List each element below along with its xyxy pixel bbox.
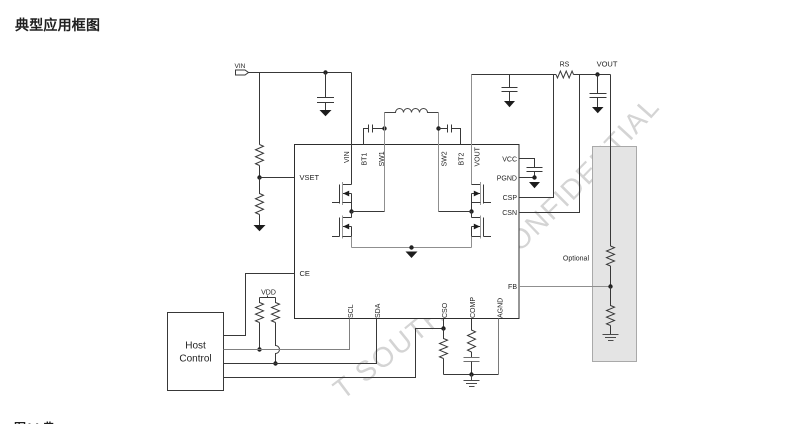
ground (COMP, signal) [464,375,480,387]
capacitor CO1 (mid) [502,75,518,102]
node VOUT [595,72,599,76]
svg-text:VIN: VIN [235,63,246,70]
wire Q2 source drop [351,237,353,248]
resistor RP2 (SDA pull-up) [272,298,280,364]
resistor RFB1 [607,246,615,287]
node PGND [532,175,536,179]
node SCL pull-up [257,347,261,351]
svg-text:SCL: SCL [348,304,355,318]
node SW2 internal [469,209,473,213]
resistor RFB2 [607,287,615,335]
wire SDA [224,319,377,364]
resistor RS [556,71,574,78]
wire BT1 pin stub [364,129,369,145]
capacitor CO2 (VOUT) [590,75,607,108]
svg-text:SDA: SDA [375,303,382,318]
wire CE [224,274,295,336]
wire VOUT down to load [610,75,612,247]
wire BT2 pin stub [452,129,461,145]
ground (R2) [254,225,266,231]
wire PGND [519,177,535,179]
svg-text:CSN: CSN [502,210,517,217]
wire CSO [224,319,444,378]
transistor Q1 (high-side left) [332,182,352,212]
resistor R2 (VSET to GND) [256,178,264,226]
wire VOUT rail [472,74,557,76]
svg-text:RS: RS [560,62,570,69]
node BT2/SW2 [436,126,440,130]
capacitor CVCC [527,168,543,178]
node VSET [257,175,261,179]
wire Q3 source drop [471,237,473,248]
svg-text:典型应用框图: 典型应用框图 [15,17,100,33]
svg-text:Host: Host [185,341,206,352]
wire VDD rail [260,297,276,299]
svg-text:BT2: BT2 [459,153,466,166]
node SDA pull-up [273,361,277,365]
watermark [327,78,687,406]
inductor L1 [385,109,439,113]
capacitor CBT1 [369,125,385,133]
wire CSN sense [519,75,580,213]
transistor Q3 (low-side right) [472,212,492,239]
capacitor CCOMP [464,358,480,362]
node input cap tap [323,70,327,74]
terminal VIN [236,70,249,75]
resistor RCOMP [468,319,476,358]
svg-text:FB: FB [508,284,517,291]
node source rail mid [409,245,413,249]
Host Control box [168,313,224,391]
ground (CIN) [320,110,332,116]
transistor Q4 (high-side right) [472,182,492,212]
resistor R1 (VIN to VSET) [256,145,264,178]
wire VCC [519,159,535,168]
wire SW1 internal [352,211,385,213]
svg-text:Optional: Optional [563,256,590,263]
wire VIN rail [249,72,352,74]
wire internal source rail [352,247,472,249]
wire CSP sense [519,75,554,198]
wire VOUT column into block [471,75,473,185]
svg-text:图14 典: 图14 典 [14,420,55,424]
svg-text:VSET: VSET [300,173,320,182]
ground (CO1) [504,101,515,107]
wire compensation rail [444,374,499,376]
svg-text:CSP: CSP [503,195,518,202]
svg-text:BT1: BT1 [362,153,369,166]
node COMP rail [469,372,473,376]
bottom caption (clipped) [14,420,55,424]
svg-text:VOUT: VOUT [597,60,618,69]
load box [593,147,637,362]
wire VSET [260,177,295,179]
ground (CO2) [592,107,604,113]
wire SW2 internal [439,211,472,213]
wire cap lead [325,73,327,98]
svg-text:SW2: SW2 [442,151,449,166]
svg-text:CSO: CSO [442,302,449,318]
capacitor CBT2 [439,125,452,133]
ground (FB divider, signal) [603,335,619,341]
wire FB [519,286,611,288]
resistor RP1 (SCL pull-up) [256,298,264,350]
transistor Q2 (low-side left) [332,212,352,239]
wire AGND [498,319,500,375]
wire SW2 column [438,113,440,212]
svg-text:PGND: PGND [497,175,517,182]
svg-text:CE: CE [300,269,310,278]
IC block U1 [295,145,520,319]
resistor RCSO [440,329,448,375]
wire SW1 column [384,113,386,212]
svg-text:AGND: AGND [497,298,504,318]
node SW1 internal [349,209,353,213]
svg-text:VCC: VCC [502,156,517,163]
node FB [608,284,612,288]
ground (power stage) [406,252,418,259]
node BT1/SW1 [382,126,386,130]
svg-text:COMP: COMP [470,297,477,318]
wire RS to corner [574,74,611,76]
svg-text:Control: Control [179,354,211,365]
node CSO [441,326,445,330]
wire VIN drop to divider [259,73,261,145]
svg-text:VIN: VIN [344,151,351,163]
svg-text:VDD: VDD [261,290,276,297]
ground (PGND) [529,182,540,188]
capacitor CIN [317,98,334,111]
wire SCL [224,319,350,350]
wire VIN column into block [351,73,353,185]
page title [15,17,100,33]
svg-text:VOUT: VOUT [475,146,482,166]
wire VDD stub [267,296,269,298]
